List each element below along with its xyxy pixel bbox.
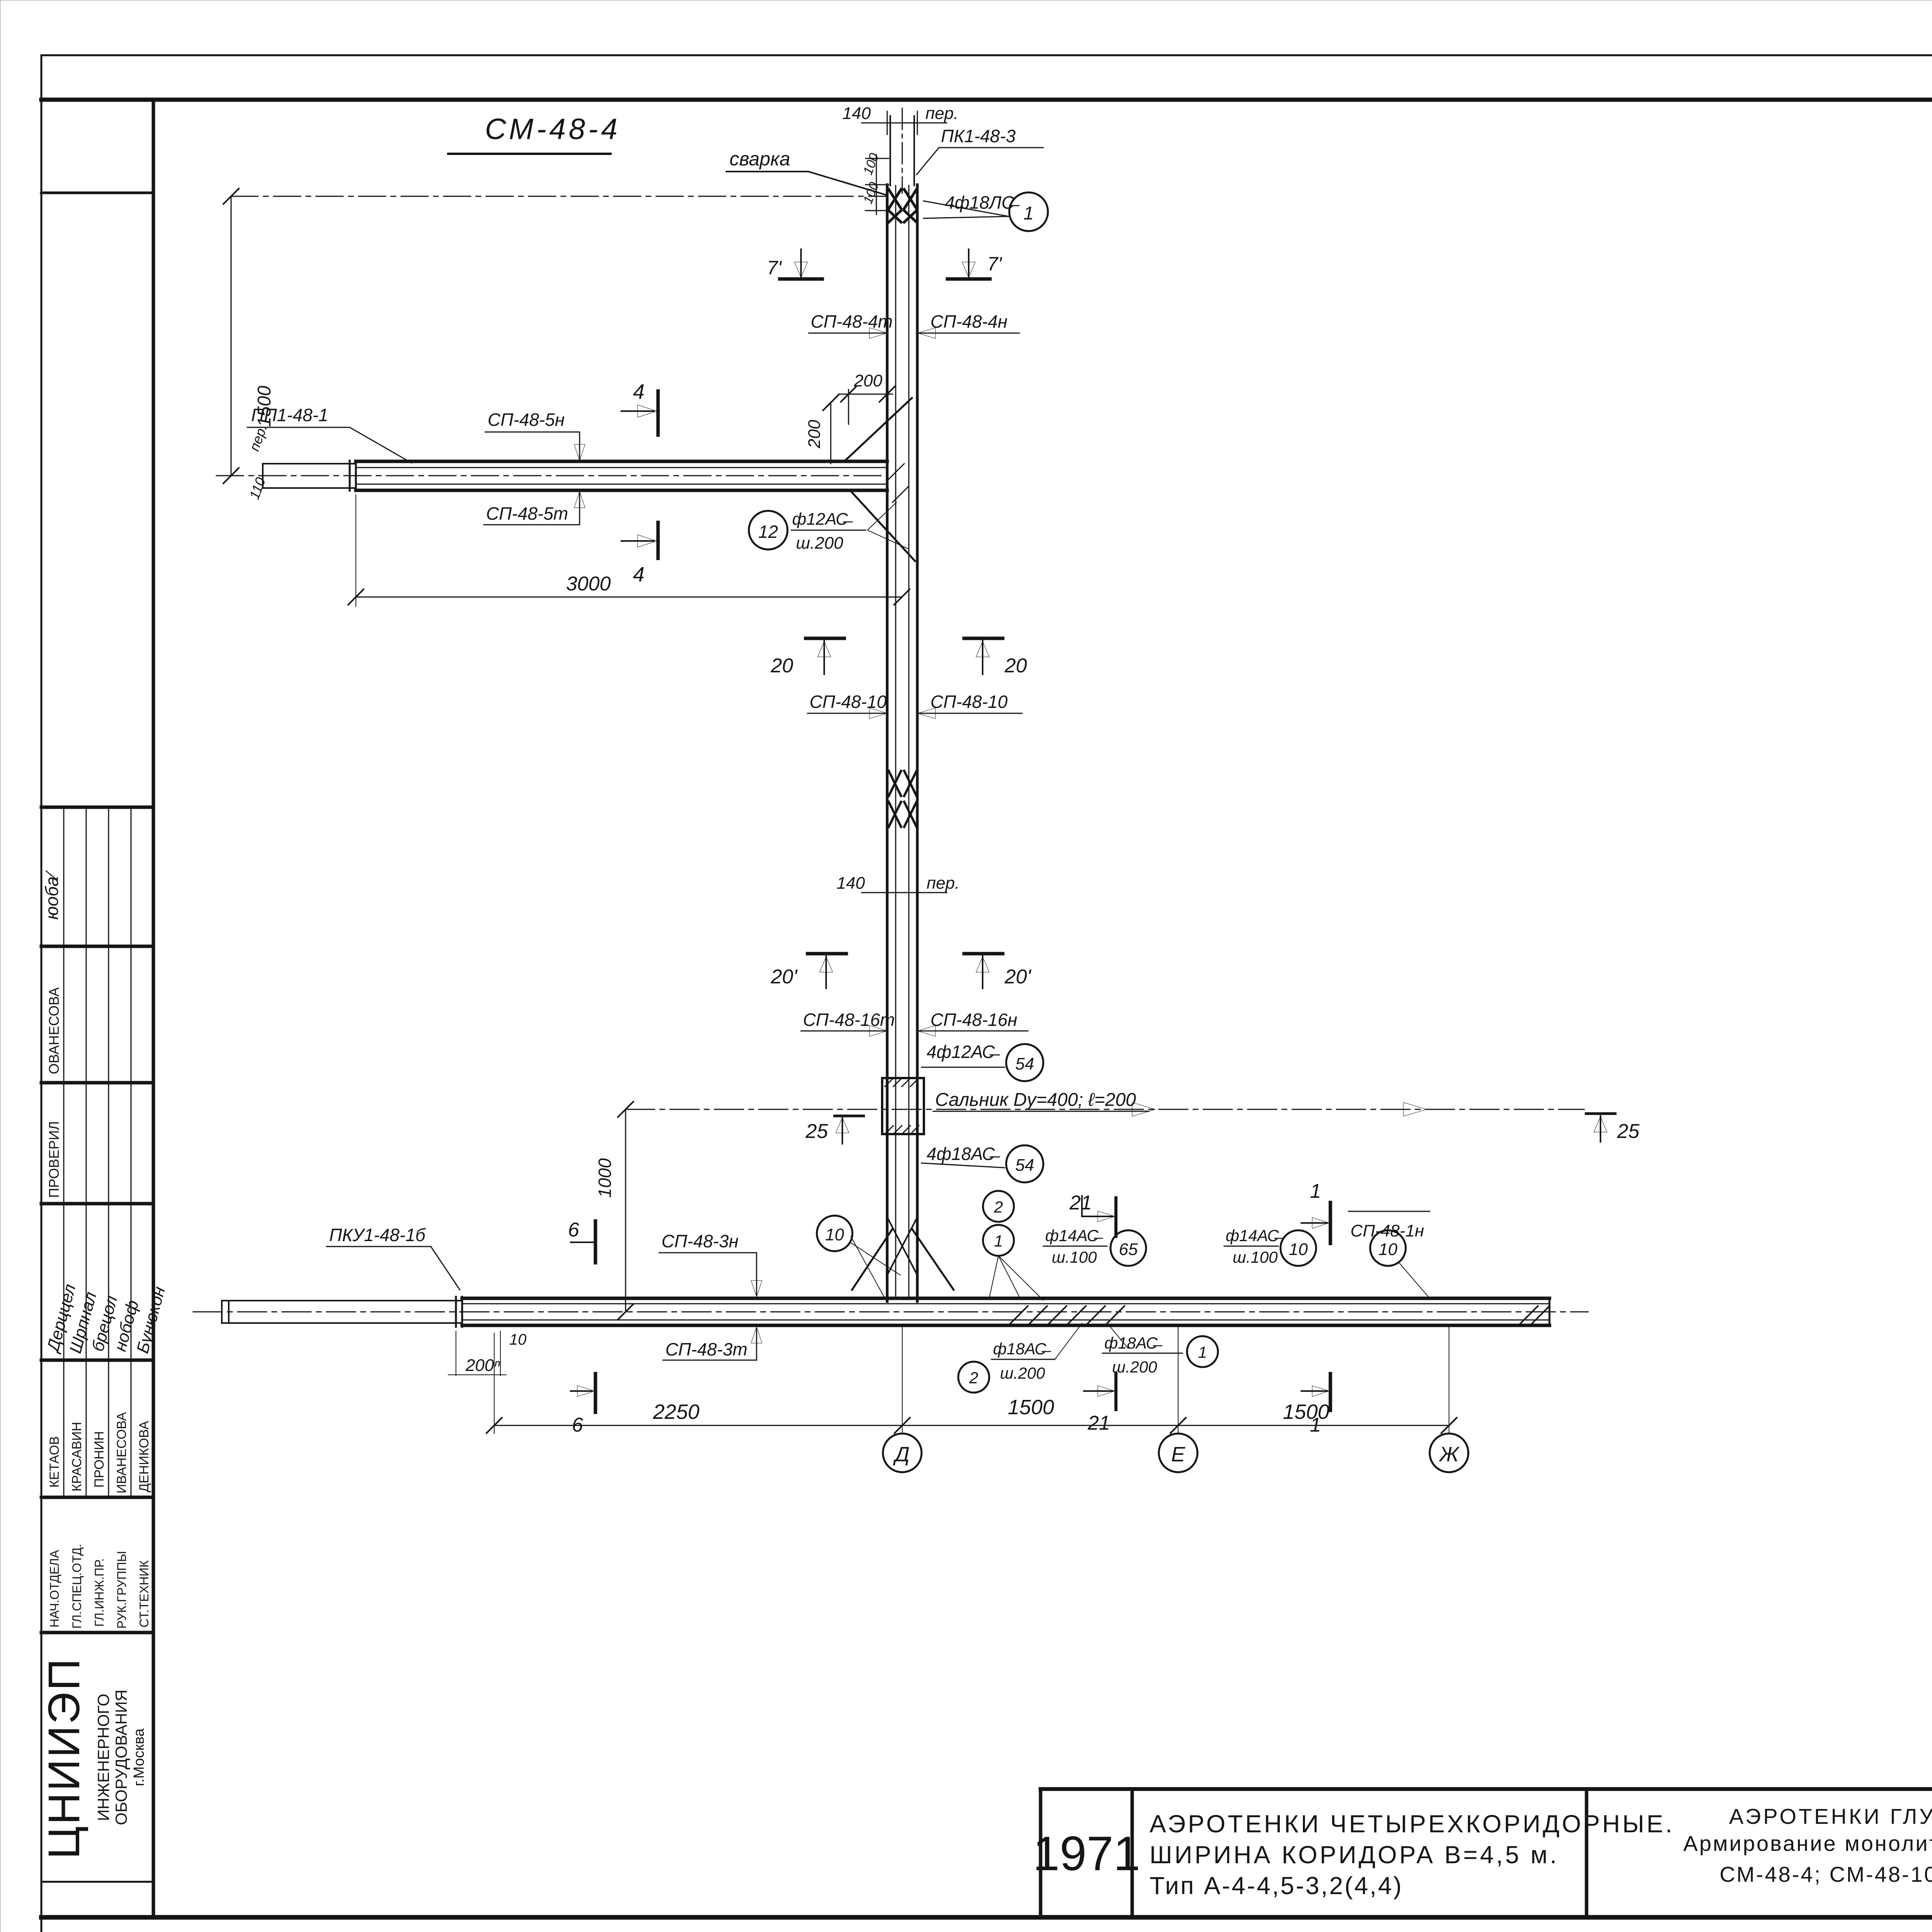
sidebar stamp divider 7 [41, 1631, 153, 1634]
label PK1-48-3 underline leader [917, 148, 1043, 175]
svg-text:200: 200 [805, 420, 824, 449]
SP-48-4T underline arrow [809, 333, 886, 334]
svg-text:пер.: пер. [925, 104, 958, 123]
axis circle Zh [1430, 1434, 1468, 1472]
svg-text:ИНЖЕНЕРНОГО: ИНЖЕНЕРНОГО [94, 1694, 112, 1821]
svg-text:54: 54 [1015, 1156, 1034, 1175]
svg-text:2250: 2250 [653, 1400, 699, 1423]
svg-text:Сальник Dy=400; ℓ=200: Сальник Dy=400; ℓ=200 [935, 1090, 1136, 1110]
svg-text:7': 7' [987, 253, 1002, 275]
sidebar right vertical [152, 100, 155, 1917]
svg-text:20': 20' [1004, 966, 1032, 988]
svg-text:СП-48-10: СП-48-10 [930, 692, 1008, 712]
dim 140 per middle [862, 892, 947, 893]
svg-text:СП-48-4н: СП-48-4н [930, 311, 1007, 332]
marker 25 right [1586, 1112, 1615, 1115]
arm inner rebar bottom [356, 484, 887, 485]
column D outer right line [916, 185, 919, 1301]
wall inner rebar bottom [462, 1320, 1549, 1321]
section 20' marker left [808, 952, 846, 956]
svg-text:54: 54 [1015, 1054, 1034, 1073]
wall panel left end [221, 1301, 223, 1323]
main frame top line [41, 98, 1932, 102]
svg-text:3000: 3000 [566, 573, 611, 595]
svg-text:РУК.ГРУППЫ: РУК.ГРУППЫ [115, 1551, 129, 1629]
SP-48-4N underline arrow [919, 333, 1019, 334]
svg-text:200ⁿ: 200ⁿ [465, 1356, 500, 1375]
sidebar stamp divider 8 [41, 1881, 153, 1883]
svg-text:Тип А-4-4,5-3,2(4,4): Тип А-4-4,5-3,2(4,4) [1150, 1872, 1403, 1900]
svg-text:КРАСАВИН: КРАСАВИН [70, 1422, 84, 1492]
arm monolithic bottom outer [356, 489, 887, 492]
wall right end [1549, 1298, 1551, 1325]
title block vertical year box left [1039, 1789, 1043, 1917]
svg-text:ш.200: ш.200 [796, 534, 844, 553]
pos circle 1 top [1009, 192, 1048, 231]
svg-text:ДЕНИКОВА: ДЕНИКОВА [137, 1421, 151, 1492]
junction small hatch [889, 464, 908, 502]
axis leader E [1178, 1325, 1179, 1433]
dim 100 100 weld ticks [866, 158, 889, 159]
svg-text:ГЛ.СПЕЦ.ОТД.: ГЛ.СПЕЦ.ОТД. [70, 1544, 84, 1629]
column D weld cross middle [889, 771, 917, 827]
svg-text:10: 10 [1289, 1240, 1308, 1259]
svg-text:100: 100 [861, 151, 882, 177]
svg-text:1500: 1500 [1008, 1396, 1054, 1419]
pos circle 1 lower [983, 1225, 1014, 1256]
svg-text:200: 200 [854, 371, 883, 390]
salnik label underline [933, 1111, 1149, 1112]
sidebar inner column line c [108, 807, 109, 1497]
arm panel PP1-48-1 top line [263, 463, 356, 464]
svg-text:СП-48-1н: СП-48-1н [1350, 1221, 1424, 1240]
svg-text:1500: 1500 [1283, 1400, 1329, 1423]
dim 1500 tick bottom [223, 468, 239, 483]
circle 12 with f12AII sh200 [749, 511, 787, 549]
svg-text:ф12АС̶: ф12АС̶ [792, 510, 853, 529]
wall hatch shading [1009, 1306, 1549, 1325]
svg-text:юоба∕: юоба∕ [42, 870, 62, 920]
column D precast panel top right line [913, 116, 915, 185]
svg-text:ПП1-48-1: ПП1-48-1 [251, 405, 328, 425]
dim 200 arm horizontal [848, 389, 849, 424]
svg-text:Е: Е [1171, 1443, 1185, 1466]
svg-text:4: 4 [633, 563, 645, 586]
junction diagonal above arm [844, 398, 912, 461]
sidebar inner column line a [63, 807, 65, 1497]
wall left panel PKU bottom line [222, 1322, 461, 1324]
section 20 marker left [806, 637, 844, 640]
svg-text:НАЧ.ОТДЕЛА: НАЧ.ОТДЕЛА [48, 1549, 61, 1628]
wall dim line bottom [494, 1425, 1449, 1426]
title block vertical 3 [1585, 1789, 1588, 1917]
axis leader D [902, 1325, 903, 1433]
arm panel PP1-48-1 bottom line [263, 487, 356, 489]
svg-text:сварка: сварка [730, 148, 790, 170]
salnik arrows [1132, 1102, 1155, 1116]
pos circle 10 mid [1281, 1230, 1316, 1266]
svg-text:ф18АС̶: ф18АС̶ [993, 1340, 1051, 1358]
svg-text:20: 20 [770, 655, 793, 677]
svg-text:ОВАНЕСОВА: ОВАНЕСОВА [46, 987, 62, 1074]
svg-text:25: 25 [1617, 1120, 1640, 1143]
svg-text:СП-48-16т: СП-48-16т [803, 1010, 895, 1030]
svg-text:г.Москва: г.Москва [131, 1728, 147, 1786]
svg-text:10: 10 [825, 1225, 844, 1244]
horizontal centerline upper [231, 196, 887, 197]
svg-text:100: 100 [861, 180, 882, 206]
svg-text:140: 140 [837, 874, 865, 893]
column D inner rebar right [908, 185, 910, 1298]
svg-text:ф14АС̶: ф14АС̶ [1226, 1226, 1284, 1245]
column D precast panel top left line [889, 116, 891, 185]
svg-text:4ф18АС̶: 4ф18АС̶ [927, 1144, 1000, 1164]
main frame bottom line [41, 1915, 1932, 1920]
wall inner rebar top [462, 1303, 1549, 1304]
leader 4f18 to column [923, 201, 1009, 216]
svg-text:12: 12 [758, 522, 778, 542]
svg-text:ИВАНЕСОВА: ИВАНЕСОВА [114, 1412, 129, 1493]
arm panel joint marks [349, 461, 351, 491]
svg-text:СП-48-5т: СП-48-5т [486, 503, 568, 524]
svg-text:СП-48-4т: СП-48-4т [811, 311, 893, 332]
svg-text:ПКУ1-48-1б: ПКУ1-48-1б [329, 1225, 426, 1245]
svg-text:2: 2 [969, 1369, 978, 1387]
svg-text:ф18АС̶: ф18АС̶ [1104, 1334, 1163, 1352]
dim 3000 line [356, 597, 902, 598]
section 1 marker bottom [1329, 1374, 1332, 1410]
section 7 marker left [780, 277, 822, 281]
svg-text:10: 10 [1379, 1240, 1398, 1259]
pos circle 2 upper [983, 1191, 1014, 1222]
axis circle D [883, 1434, 922, 1472]
SP-48-5T underline leader [484, 493, 580, 525]
svg-text:ЦНИИЭП: ЦНИИЭП [39, 1657, 89, 1859]
dim 1500 tick top [223, 189, 239, 204]
svg-text:КЕТАОВ: КЕТАОВ [47, 1436, 62, 1488]
svg-text:АЭРОТЕНКИ ЧЕТЫРЕХКОРИДОРНЫЕ.: АЭРОТЕНКИ ЧЕТЫРЕХКОРИДОРНЫЕ. [1150, 1810, 1675, 1838]
svg-text:21: 21 [1087, 1412, 1110, 1434]
svg-text:ОБОРУДОВАНИЯ: ОБОРУДОВАНИЯ [112, 1690, 130, 1825]
pos circle 54 upper [1006, 1044, 1043, 1081]
section 4 marker bottom [656, 522, 660, 558]
section 20' marker right [964, 952, 1003, 956]
column D outer left line [886, 185, 889, 1301]
wall joint marks [455, 1297, 457, 1327]
section 20 marker right [964, 637, 1003, 640]
svg-text:1971: 1971 [1033, 1827, 1140, 1881]
svg-text:СП-48-16н: СП-48-16н [930, 1010, 1017, 1030]
svg-text:ф14АС̶: ф14АС̶ [1045, 1226, 1104, 1245]
svg-text:4: 4 [633, 380, 645, 403]
svg-text:ПРОНИН: ПРОНИН [92, 1431, 107, 1488]
title block top line [1041, 1787, 1932, 1791]
sidebar stamp divider 1 [41, 806, 153, 809]
svg-text:пер.: пер. [927, 874, 959, 893]
svg-text:7': 7' [767, 257, 782, 279]
svg-text:1: 1 [1198, 1343, 1207, 1361]
label svarka leader [726, 172, 887, 195]
section 7 marker right [947, 277, 990, 281]
section 21 marker bottom [1114, 1374, 1117, 1410]
svg-text:140: 140 [842, 104, 871, 123]
svg-text:СМ-48-4; СМ-48-10. Узел „Г“ и: СМ-48-4; СМ-48-10. Узел „Г“ и „Д“. [1719, 1862, 1932, 1886]
arm panel left end [262, 464, 264, 488]
sidebar inner column line b [86, 807, 87, 1497]
SM-48-4 title underline [448, 153, 611, 155]
svg-text:6: 6 [568, 1219, 579, 1241]
axis leader Zh [1449, 1325, 1449, 1433]
svg-text:СМ-48-4: СМ-48-4 [485, 113, 621, 146]
svg-text:ш.100: ш.100 [1233, 1248, 1278, 1266]
salnik centerline [626, 1109, 1584, 1110]
svg-text:65: 65 [1119, 1240, 1138, 1259]
sidebar inner column line d [131, 807, 132, 1497]
title block vertical 2 [1131, 1789, 1134, 1917]
junction diagonal below arm [850, 490, 915, 561]
column D weld cross top [889, 189, 917, 222]
svg-text:1000: 1000 [595, 1158, 615, 1198]
svg-text:СП-48-5н: СП-48-5н [488, 410, 565, 430]
sidebar stamp divider 3 [41, 1081, 153, 1085]
leaders f12 to junction [867, 502, 896, 530]
wall monolithic bottom outer [462, 1324, 1549, 1327]
dim 1000 vertical [625, 1109, 626, 1312]
svg-text:ГЛ.ИНЖ.ПР.: ГЛ.ИНЖ.ПР. [92, 1558, 106, 1627]
svg-text:2: 2 [993, 1198, 1003, 1216]
pos circle 54 lower [1006, 1145, 1043, 1182]
pos circle 10 right [1370, 1230, 1406, 1266]
stuffing box D [882, 1078, 924, 1134]
svg-text:21: 21 [1069, 1192, 1092, 1214]
column D inner rebar left [895, 185, 896, 1298]
arm centerline [216, 475, 887, 476]
svg-text:СП-48-3т: СП-48-3т [665, 1339, 747, 1359]
svg-text:20: 20 [1004, 655, 1027, 677]
section 6 marker bottom [571, 1390, 592, 1392]
svg-text:ШИРИНА КОРИДОРА B=4,5 м.: ШИРИНА КОРИДОРА B=4,5 м. [1150, 1841, 1559, 1869]
column D base X brace [887, 1217, 917, 1275]
wall left panel PKU top line [222, 1300, 461, 1301]
pos circle 10 wall [817, 1216, 852, 1251]
svg-text:1: 1 [1310, 1180, 1321, 1202]
svg-text:СП-48-3н: СП-48-3н [662, 1231, 738, 1251]
svg-text:ш.200: ш.200 [1000, 1364, 1045, 1382]
svg-text:25: 25 [805, 1120, 828, 1143]
svg-text:4ф12АС̶: 4ф12АС̶ [927, 1042, 1000, 1062]
column D base legs [852, 1229, 893, 1290]
wall centerline [193, 1311, 1588, 1313]
svg-text:1: 1 [994, 1232, 1003, 1250]
column D centerline top [902, 108, 903, 193]
svg-text:20': 20' [770, 966, 798, 988]
svg-text:Армирование монолитных участ: Армирование монолитных участков стен [1683, 1831, 1932, 1855]
svg-text:Д: Д [893, 1443, 910, 1466]
label f18AII sh200 circle 2 [958, 1362, 989, 1393]
arm inner rebar top [356, 467, 887, 468]
svg-text:АЭРОТЕНКИ ГЛУБИНОЙ 4,4 м.: АЭРОТЕНКИ ГЛУБИНОЙ 4,4 м. [1729, 1804, 1932, 1828]
svg-text:СП-48-10: СП-48-10 [810, 692, 887, 712]
svg-text:ПК1-48-3: ПК1-48-3 [941, 126, 1016, 146]
SP-48-5N underline leader [485, 432, 580, 460]
leaders circles to wall [989, 1256, 998, 1298]
arm monolithic top outer [356, 460, 887, 463]
svg-text:1: 1 [1024, 203, 1034, 224]
axis circle E [1159, 1434, 1197, 1472]
svg-text:Бунюкон: Бунюкон [133, 1284, 169, 1355]
svg-text:10: 10 [509, 1331, 527, 1348]
dim 140 top ticks [862, 122, 947, 124]
sidebar stamp divider 4 [41, 1202, 153, 1206]
dim 1500 left vertical line [231, 196, 232, 476]
svg-text:ш.200: ш.200 [1112, 1358, 1157, 1376]
svg-text:ш.100: ш.100 [1052, 1248, 1097, 1266]
sidebar top cell divider [41, 192, 153, 194]
sidebar stamp divider 5 [41, 1359, 153, 1362]
wall monolithic top outer [462, 1297, 1549, 1300]
PP1-48-1 underline leader [247, 427, 412, 463]
sidebar stamp divider 6 [41, 1496, 153, 1499]
sidebar stamp divider 2 [41, 945, 153, 948]
svg-text:ПРОВЕРИЛ: ПРОВЕРИЛ [46, 1121, 62, 1198]
svg-text:Ж: Ж [1438, 1443, 1460, 1466]
svg-text:СТ.ТЕХНИК: СТ.ТЕХНИК [137, 1560, 151, 1628]
dim 200 arm vertical rotated [830, 403, 832, 464]
